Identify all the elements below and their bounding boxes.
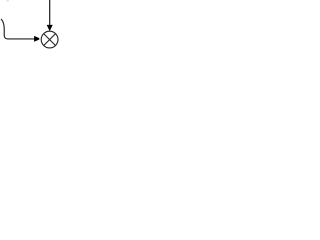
wire (curved feedback wire from upper-left turning right into horizontal run) <box>1 19 34 39</box>
summing junction U1 (circle) <box>41 31 58 48</box>
faint clipped mark at top edge <box>6 0 9 2</box>
arrowhead into summing junction (right-pointing) <box>34 36 39 42</box>
wire (vertical drop from top edge) <box>49 0 51 26</box>
summing junction U1 (X cross) <box>44 34 56 46</box>
arrowhead into summing junction (down-pointing) <box>47 25 53 31</box>
